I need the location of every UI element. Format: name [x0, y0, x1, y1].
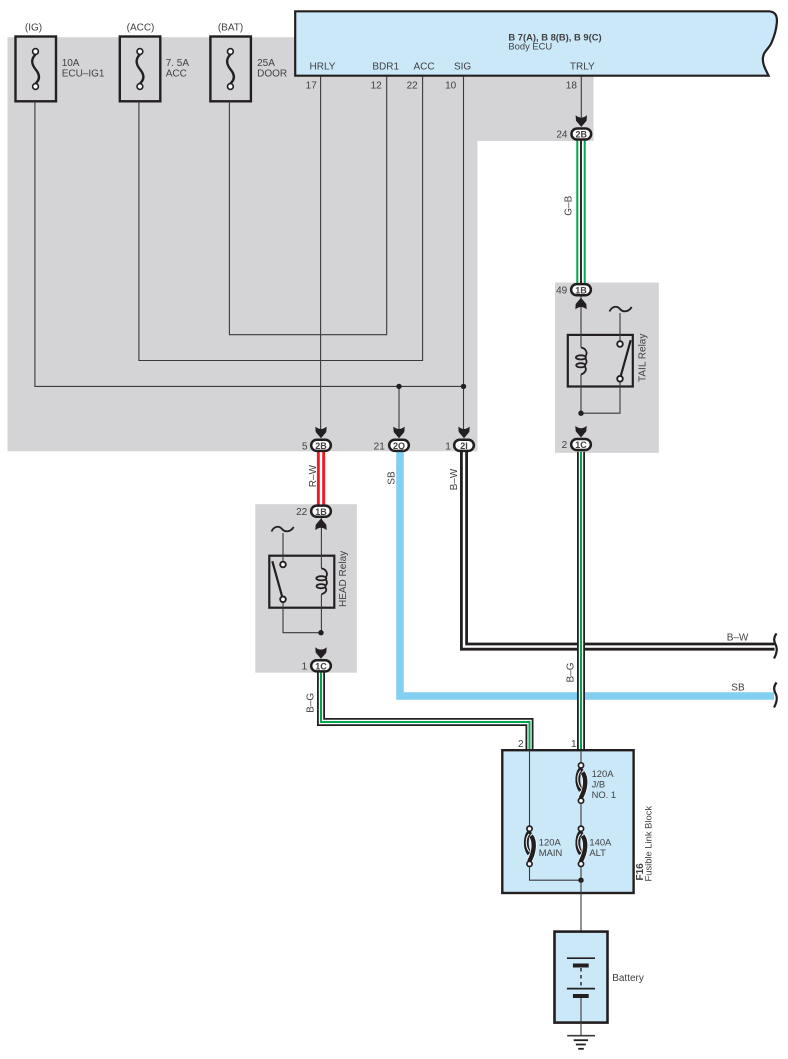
pin number 18 — [566, 81, 578, 92]
svg-text:2B: 2B — [315, 441, 327, 451]
svg-text:SB: SB — [731, 683, 745, 694]
connector 22 1B — [311, 506, 331, 517]
pin label HRLY — [310, 62, 336, 73]
connector 1 2I — [454, 440, 474, 451]
wire inside FLB pin1 to J/B link — [580, 750, 582, 763]
connector 21 2Q — [389, 440, 409, 451]
arrow into connector 1 2I — [458, 427, 469, 439]
svg-text:(ACC): (ACC) — [127, 23, 155, 34]
break squiggle TAIL relay switch feed — [610, 307, 632, 312]
pin number 21 — [374, 442, 386, 453]
wire fuse IG down and right to SIG node — [35, 101, 464, 386]
svg-text:B–G: B–G — [306, 693, 317, 713]
switch contacts TAIL relay — [621, 340, 631, 376]
svg-text:2Q: 2Q — [393, 441, 405, 451]
svg-text:Body ECU: Body ECU — [508, 41, 552, 52]
wire ECU TRLY pin 18 down to connector 2B — [580, 76, 582, 122]
svg-text:SB: SB — [387, 471, 398, 485]
label 120A MAIN — [539, 837, 562, 859]
svg-text:B–W: B–W — [449, 468, 460, 490]
svg-text:140A: 140A — [589, 837, 612, 848]
label Body ECU title — [508, 31, 601, 51]
arrow into connector 21 2Q — [393, 427, 404, 439]
svg-text:2I: 2I — [460, 441, 468, 451]
wire TAIL relay switch bottom to junction — [583, 382, 620, 413]
wire fuse ACC down and right to ECU ACC pin — [139, 76, 423, 360]
wire TAIL relay coil top — [580, 297, 582, 348]
svg-text:HEAD Relay: HEAD Relay — [338, 551, 349, 607]
junction node HEAD relay output — [318, 630, 323, 635]
svg-text:25A: 25A — [257, 58, 275, 69]
arrow into connector 2 1C tail — [575, 426, 586, 438]
svg-text:5: 5 — [302, 442, 308, 453]
label 7.5A ACC — [166, 58, 190, 80]
label G-B — [563, 195, 574, 215]
svg-text:ECU–IG1: ECU–IG1 — [62, 69, 105, 80]
svg-text:R–W: R–W — [308, 464, 319, 487]
wire R-W from connector 5 2B to HEAD relay 1B — [317, 452, 325, 505]
label R-W — [308, 464, 319, 487]
junction node at SIG/2I — [461, 384, 466, 389]
svg-text:120A: 120A — [592, 768, 615, 779]
label (BAT) — [218, 23, 243, 34]
label B-W horizontal — [727, 633, 749, 644]
pin number 22 — [407, 81, 419, 92]
wire inside FLB pin2 to MAIN link — [529, 750, 531, 826]
label (IG) — [25, 23, 42, 34]
fusible link 140A ALT — [578, 826, 586, 866]
wire TAIL relay coil bottom to junction — [580, 375, 582, 414]
svg-text:7. 5A: 7. 5A — [166, 58, 190, 69]
pin number 1 head — [302, 661, 308, 672]
wire HEAD relay coil top — [320, 518, 322, 568]
label SB horizontal — [731, 683, 745, 694]
svg-text:TRLY: TRLY — [570, 62, 595, 73]
pin number 1 2I — [445, 442, 451, 453]
battery box — [555, 932, 608, 1023]
svg-text:24: 24 — [556, 130, 568, 141]
svg-text:TAIL Relay: TAIL Relay — [638, 334, 649, 382]
connector 2 1C tail — [571, 439, 591, 450]
svg-text:12: 12 — [371, 81, 383, 92]
label 140A ALT — [589, 837, 612, 859]
svg-text:Battery: Battery — [612, 973, 644, 984]
label SB vertical — [387, 471, 398, 485]
gray region TAIL relay — [555, 283, 659, 453]
pin label BDR1 — [372, 62, 399, 73]
coil HEAD relay — [321, 568, 327, 577]
svg-text:18: 18 — [566, 81, 578, 92]
fusible link 120A J/B NO.1 — [578, 763, 586, 804]
wire fuse BAT down and right to ECU BDR1 pin — [229, 76, 386, 334]
wire HEAD relay coil bottom to junction — [320, 594, 322, 632]
wire inside FLB MAIN to junction — [530, 867, 580, 881]
svg-text:1: 1 — [445, 442, 451, 453]
wire battery to ground — [580, 998, 582, 1036]
pin number 12 — [371, 81, 383, 92]
pin number 5 — [302, 442, 308, 453]
junction node at 2Q branch — [396, 384, 401, 389]
wire TAIL relay switch top — [619, 313, 621, 341]
junction node TAIL relay output — [578, 411, 583, 416]
svg-text:(BAT): (BAT) — [218, 23, 243, 34]
svg-text:1: 1 — [571, 739, 577, 750]
label 120A J/B NO. 1 — [592, 768, 617, 800]
arrow into connector 22 1B — [315, 519, 326, 531]
svg-text:Fusible Link Block: Fusible Link Block — [643, 806, 654, 882]
pin number 1 FLB — [571, 739, 577, 750]
break symbol SB right — [774, 683, 777, 708]
fuse (IG) 10A ECU-IG1 — [16, 37, 57, 102]
wire B-G from HEAD relay 1C to fusible link block pin 2 — [321, 672, 530, 751]
svg-text:ACC: ACC — [413, 62, 434, 73]
svg-text:1C: 1C — [575, 440, 587, 450]
label B-G tail — [566, 662, 577, 682]
svg-text:B–W: B–W — [727, 633, 749, 644]
wire G-B from connector 24 2B to TAIL relay 1B — [576, 141, 585, 285]
ground symbol — [567, 1036, 595, 1049]
wire inside FLB ALT to junction — [580, 867, 582, 881]
label 25A DOOR — [257, 58, 287, 80]
svg-text:49: 49 — [556, 285, 568, 296]
svg-text:1B: 1B — [575, 285, 587, 295]
svg-text:17: 17 — [306, 81, 318, 92]
svg-text:10A: 10A — [62, 58, 80, 69]
connector 1 1C head — [311, 660, 331, 671]
HEAD relay box — [269, 518, 334, 633]
svg-text:21: 21 — [374, 442, 386, 453]
svg-text:1C: 1C — [315, 661, 327, 671]
label (ACC) — [127, 23, 155, 34]
svg-text:BDR1: BDR1 — [372, 62, 399, 73]
connector 5 2B — [311, 440, 331, 451]
pin number 2 tail — [562, 440, 568, 451]
svg-text:NO. 1: NO. 1 — [592, 789, 617, 800]
svg-text:B–G: B–G — [566, 662, 577, 682]
fusible link block F16 box — [502, 750, 633, 893]
svg-text:MAIN: MAIN — [539, 847, 562, 858]
svg-text:120A: 120A — [539, 837, 562, 848]
pin number 22 — [296, 507, 308, 518]
svg-text:J/B: J/B — [592, 779, 606, 790]
svg-text:G–B: G–B — [563, 195, 574, 215]
coil TAIL relay — [581, 348, 587, 357]
break symbol B-W right — [774, 634, 777, 659]
pin number 10 — [445, 81, 457, 92]
wire FLB to battery — [580, 880, 582, 958]
pin number 49 — [556, 285, 568, 296]
svg-text:2: 2 — [518, 739, 524, 750]
battery cell symbol — [567, 958, 595, 998]
switch contacts HEAD relay — [272, 561, 282, 597]
label B-G head — [306, 693, 317, 713]
pin number 17 — [306, 81, 318, 92]
wire HEAD relay switch bottom to junction — [283, 602, 319, 633]
pin label ACC — [413, 62, 434, 73]
wire SB from connector 2Q to right edge — [400, 452, 774, 696]
fuse (ACC) 7.5A ACC — [120, 37, 161, 102]
svg-text:HRLY: HRLY — [310, 62, 336, 73]
wire inside FLB J/B to ALT link — [580, 803, 582, 826]
label F16 — [635, 863, 646, 881]
TAIL relay box — [568, 297, 633, 414]
pin number 2 FLB — [518, 739, 524, 750]
svg-text:1: 1 — [302, 661, 308, 672]
wire HEAD relay switch top — [282, 533, 284, 562]
wire branch to connector 2Q — [398, 386, 400, 432]
pin label SIG — [454, 62, 471, 73]
svg-text:ACC: ACC — [166, 69, 187, 80]
Body ECU box B7(A) B8(B) B9(C) — [295, 11, 777, 75]
arrow into connector 1 1C head — [315, 647, 326, 659]
junction node FLB output — [578, 878, 583, 883]
wire ECU SIG pin 10 down to connector 2I — [463, 76, 465, 432]
wire B-W horizontal from connector 2I to right edge — [464, 452, 775, 647]
pin number 24 — [556, 130, 568, 141]
arrow into connector 5 2B — [315, 427, 326, 439]
label Fusible Link Block — [643, 806, 654, 882]
svg-text:22: 22 — [407, 81, 419, 92]
svg-text:DOOR: DOOR — [257, 69, 287, 80]
wire ECU HRLY pin 17 down to connector 2B — [320, 76, 322, 432]
gray harness region main — [8, 37, 594, 451]
wire B-G from TAIL relay 1C to fusible link block pin 1 — [577, 452, 585, 751]
connector 24 2B — [571, 128, 591, 139]
svg-text:1B: 1B — [315, 507, 327, 517]
label Battery — [612, 973, 644, 984]
svg-text:ALT: ALT — [589, 847, 606, 858]
svg-text:SIG: SIG — [454, 62, 471, 73]
pin label TRLY — [570, 62, 595, 73]
svg-text:2: 2 — [562, 440, 568, 451]
svg-text:2B: 2B — [576, 130, 588, 140]
label TAIL Relay — [638, 334, 649, 382]
fuse (BAT) 25A DOOR — [210, 37, 251, 102]
arrow into connector 24 2B — [576, 115, 587, 127]
label HEAD Relay — [338, 551, 349, 607]
label 10A ECU-IG1 — [62, 58, 105, 80]
connector 49 1B — [571, 284, 591, 295]
svg-text:22: 22 — [296, 507, 308, 518]
svg-text:(IG): (IG) — [25, 23, 42, 34]
gray region HEAD relay — [255, 504, 356, 673]
label B-W vertical — [449, 468, 460, 490]
arrow into connector 49 1B — [575, 298, 586, 310]
fusible link 120A MAIN — [526, 826, 534, 866]
svg-text:10: 10 — [445, 81, 457, 92]
break squiggle HEAD relay switch feed — [272, 527, 294, 532]
